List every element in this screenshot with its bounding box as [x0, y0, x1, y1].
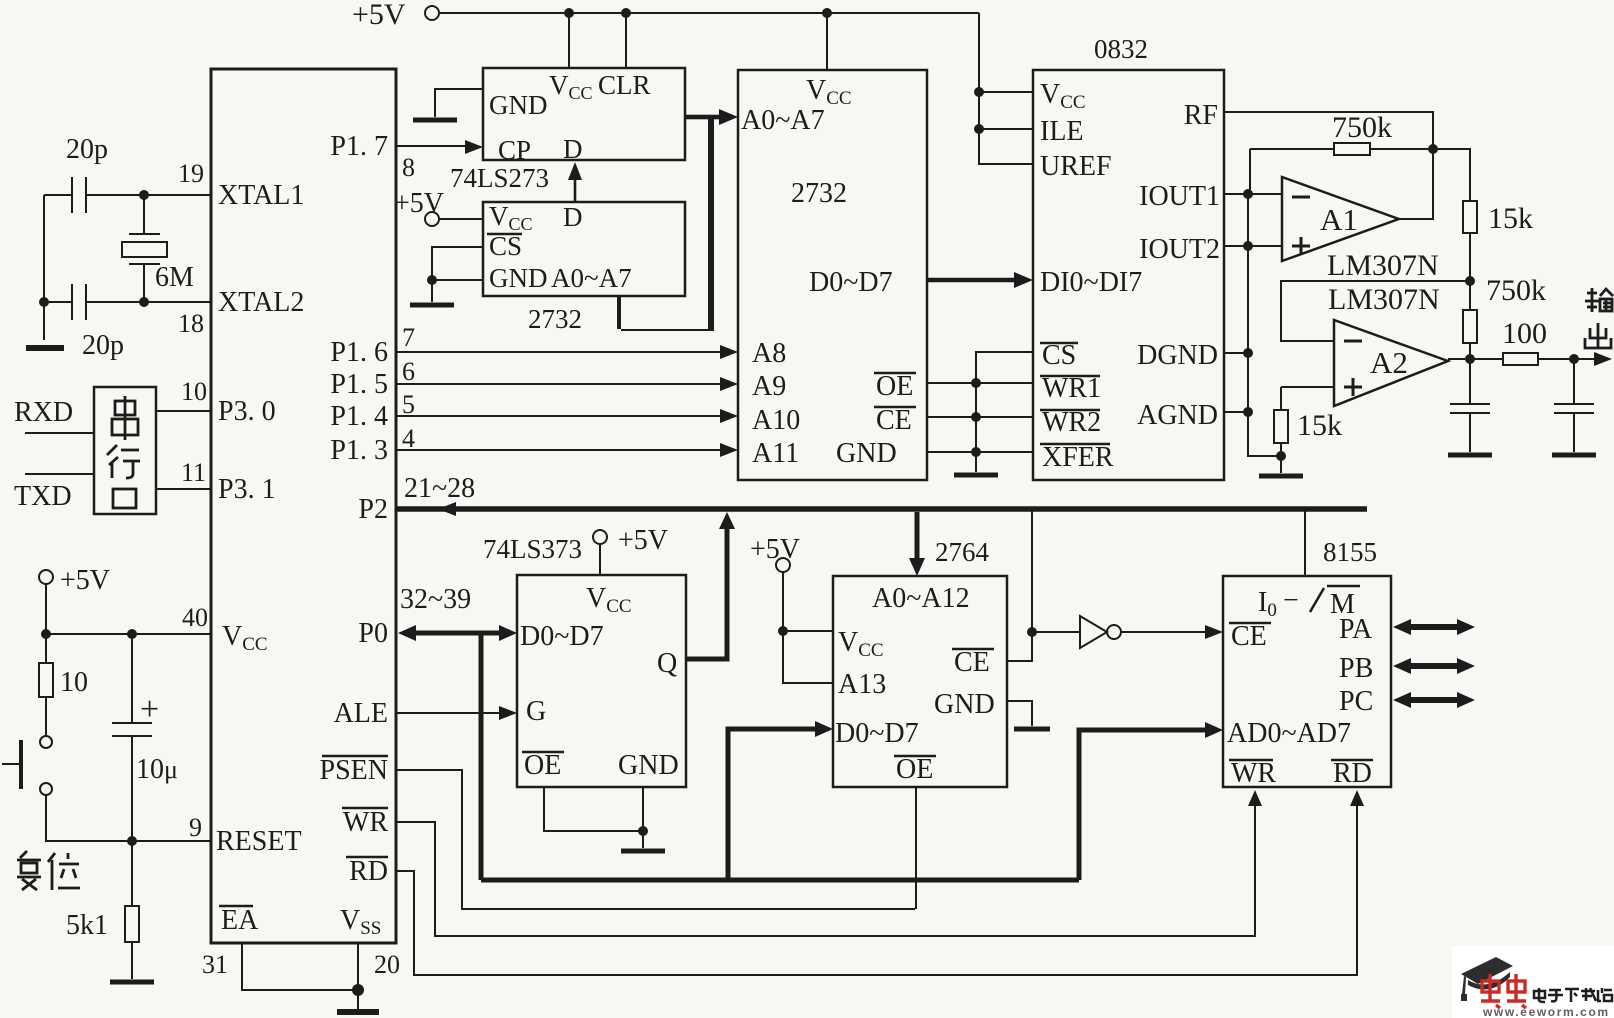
wire feedback to IOUT1 — [1249, 149, 1251, 194]
svg-text:P1. 3: P1. 3 — [330, 435, 388, 466]
DAC U5 0832 body — [1033, 70, 1224, 480]
wire +5V drop to 2732 VCC — [826, 13, 828, 70]
svg-text:LM307N: LM307N — [1327, 249, 1439, 282]
arrowhead P0 left — [398, 625, 416, 641]
wire 2764 OE drop — [915, 787, 917, 909]
wire WR to 8155 WR — [396, 796, 1255, 936]
wire XTAL2 to MCU pin 18 — [144, 301, 211, 303]
capacitor C3 10u electrolytic — [112, 634, 152, 841]
wire +5V to 2764 VCC and A13 — [783, 572, 833, 683]
bus P0 to 74LS373 D0~D7 — [404, 631, 510, 636]
junction dot caps left leg — [39, 297, 49, 307]
svg-text:5: 5 — [402, 390, 415, 419]
wire 2732 CS to ground rail — [432, 247, 483, 280]
wire +5V to 74LS373 VCC — [599, 544, 601, 575]
latch U2 74LS273 body — [483, 68, 685, 160]
A1 minus input — [1292, 196, 1310, 199]
svg-text:TXD: TXD — [14, 481, 72, 512]
wire 2732 OE to 0832 WR1 — [927, 382, 1033, 384]
wire A1 output to node — [1399, 149, 1433, 219]
svg-text:GND: GND — [618, 750, 679, 781]
wire +5V to 2732 VCC — [439, 218, 483, 220]
svg-text:20p: 20p — [82, 330, 124, 361]
bus P2 (21~28) — [396, 506, 1367, 512]
pushbutton S1 (reset) — [40, 736, 52, 748]
svg-text:RESET: RESET — [216, 826, 302, 857]
junction dot 0832 VCC — [974, 87, 984, 97]
inverter U9 — [1080, 616, 1107, 648]
svg-text:A0~A7: A0~A7 — [741, 105, 825, 136]
wire 15k to ground — [1280, 443, 1282, 473]
wire +5V to VCC pin 40 — [46, 584, 211, 634]
wire 2732 GND to 0832 XFER — [927, 451, 1033, 453]
wire IOUT2 to A1 noninverting input — [1224, 245, 1282, 247]
svg-text:A8: A8 — [752, 338, 786, 369]
svg-text:20p: 20p — [66, 134, 108, 165]
resistor R6 15k (A2 +) — [1274, 410, 1288, 443]
svg-text:P1. 6: P1. 6 — [330, 337, 388, 368]
wire 0832 VCC stub — [979, 91, 1033, 93]
svg-text:+5V: +5V — [750, 534, 800, 565]
junction dot +5V rail at 74LS273 VCC — [564, 8, 574, 18]
svg-text:WR: WR — [1231, 758, 1276, 789]
svg-text:P3. 0: P3. 0 — [218, 396, 276, 427]
junction dot DGND — [1243, 348, 1253, 358]
wire inverter output to 8155 CE — [1121, 631, 1215, 633]
svg-text:PA: PA — [1339, 614, 1373, 645]
port PB bidirectional arrow — [1401, 663, 1467, 669]
arrowhead P2 bus left — [438, 502, 456, 516]
junction dot 0832 ILE — [974, 124, 984, 134]
ground (VSS pin 20) — [337, 1009, 379, 1015]
arrowhead D up into 74LS273 — [568, 162, 582, 180]
wire 15k to junction — [1469, 233, 1471, 310]
EPROM U7 2764 body — [833, 576, 1007, 787]
wire serial box to P3.0 — [156, 410, 211, 412]
arrowhead DI0~DI7 thick — [1014, 272, 1033, 288]
svg-text:OE: OE — [876, 371, 913, 402]
+5V terminal (2732 latch) — [425, 212, 439, 226]
svg-text:2764: 2764 — [935, 537, 990, 567]
svg-text:WR: WR — [343, 807, 388, 838]
svg-text:A9: A9 — [752, 371, 786, 402]
wire PSEN to 2764 OE — [396, 770, 915, 909]
svg-text:RF: RF — [1184, 100, 1218, 131]
junction dot VSS ground — [352, 984, 364, 996]
label 出 — [1585, 323, 1611, 348]
svg-text:10μ: 10μ — [136, 754, 178, 785]
svg-text:8: 8 — [402, 153, 415, 182]
junction dot +5V rail at CLR — [621, 8, 631, 18]
svg-text:A10: A10 — [752, 405, 800, 436]
capacitor C2 20p (XTAL2) — [44, 284, 144, 320]
svg-text:IOUT1: IOUT1 — [1139, 181, 1220, 212]
svg-text:+5V: +5V — [394, 188, 444, 219]
watermark graduation cap logo — [1461, 957, 1513, 1001]
port PA bidirectional arrow — [1401, 624, 1467, 630]
junction dot GND-XFER — [971, 447, 981, 457]
wire P1.7 to 74LS273 CP — [396, 145, 476, 147]
ground (2732 latch) — [410, 303, 454, 308]
svg-text:D0~D7: D0~D7 — [835, 718, 919, 749]
A1 plus input — [1292, 237, 1310, 255]
arrowhead P2 into 2764 A0~A12 — [909, 558, 925, 576]
data bus branch to 2764 D0~D7 — [728, 729, 824, 878]
arrowhead output 输出 — [1594, 352, 1612, 366]
wire P2 bus to 8155 top — [1304, 509, 1306, 576]
+5V terminal (74LS373) — [593, 530, 607, 544]
svg-text:D0~D7: D0~D7 — [520, 621, 604, 652]
arrowhead CP — [465, 140, 483, 154]
label 输 — [1585, 288, 1613, 312]
svg-text:GND: GND — [489, 263, 548, 293]
svg-text:CE: CE — [876, 405, 912, 436]
svg-text:P2: P2 — [358, 494, 388, 525]
wire 74LS273 to 2732 A0~A7 (thick) — [685, 115, 721, 120]
svg-text:P1. 7: P1. 7 — [330, 131, 388, 162]
svg-text:UREF: UREF — [1040, 151, 1112, 182]
wire P1.6 to A8 — [396, 351, 730, 353]
junction dot IOUT2 — [1243, 241, 1253, 251]
wire XTAL1 to MCU pin 19 — [144, 194, 211, 196]
svg-text:A2: A2 — [1370, 345, 1408, 380]
wire crystal caps left leg — [43, 195, 45, 340]
svg-text:RD: RD — [349, 856, 388, 887]
wire RXD stub — [25, 432, 94, 434]
junction dot 74LS373 OE/GND — [638, 826, 648, 836]
peripheral U8 8155 body — [1223, 576, 1391, 787]
wire A2 output — [1448, 358, 1609, 360]
svg-text:PC: PC — [1339, 686, 1373, 717]
wire 74LS373 GND to ground — [642, 787, 644, 848]
wire P2 bus to 2764 CE — [1007, 509, 1032, 661]
svg-text:RD: RD — [1333, 758, 1372, 789]
wire RD to 8155 RD — [396, 796, 1357, 975]
wire TXD stub — [25, 473, 94, 475]
arrowhead into 8155 AD0~AD7 thick — [1205, 722, 1223, 738]
junction dot reset node — [127, 836, 137, 846]
svg-text:EA: EA — [221, 905, 259, 936]
svg-text:IOUT2: IOUT2 — [1139, 234, 1220, 265]
wire 0832 ILE stub — [979, 128, 1033, 130]
svg-text:18: 18 — [178, 309, 204, 338]
wire button to RESET pin 9 — [46, 795, 211, 841]
svg-text:8155: 8155 — [1323, 537, 1377, 567]
wire 2764 GND to ground — [1007, 701, 1032, 726]
junction dot CE-WR2 — [971, 412, 981, 422]
svg-text:19: 19 — [178, 159, 204, 188]
svg-text:2732: 2732 — [528, 304, 582, 334]
svg-text:D: D — [563, 202, 583, 232]
junction dot cap 10u top — [127, 629, 137, 639]
svg-text:−: − — [1283, 585, 1299, 616]
svg-text:9: 9 — [189, 813, 202, 842]
svg-text:ALE: ALE — [334, 698, 388, 729]
ground (crystal) — [26, 345, 64, 351]
svg-text:XTAL2: XTAL2 — [218, 287, 304, 318]
svg-text:WR1: WR1 — [1042, 373, 1101, 404]
data bus riser to 8155 AD0~AD7 — [1079, 730, 1214, 880]
svg-text:7: 7 — [402, 323, 415, 352]
svg-text:750k: 750k — [1486, 274, 1546, 307]
svg-text:100: 100 — [1502, 317, 1547, 350]
capacitor C5 output filter — [1554, 359, 1594, 452]
junction dot 15k/750k — [1465, 276, 1475, 286]
svg-text:15k: 15k — [1297, 409, 1342, 442]
watermark white backing — [1452, 946, 1614, 1018]
wire ALE to 74LS373 G — [396, 712, 510, 714]
wire 0832 CS — [976, 352, 1033, 472]
arrowhead A10 — [720, 409, 738, 423]
bus P0 drop to data bus — [479, 633, 484, 880]
svg-text:D0~D7: D0~D7 — [809, 267, 893, 298]
svg-text:A0~A7: A0~A7 — [551, 263, 632, 293]
wire A2 feedback — [1281, 281, 1470, 341]
junction dot XTAL1 crystal — [139, 190, 149, 200]
svg-text:4: 4 — [402, 424, 415, 453]
arrowhead Q into P2 bus — [719, 512, 735, 529]
label 位 — [48, 853, 80, 890]
svg-text:A13: A13 — [838, 669, 886, 700]
wire +5V drop to 74LS273 CLR — [625, 13, 627, 68]
op-amp A2 triangle — [1334, 320, 1448, 406]
svg-text:DI0~DI7: DI0~DI7 — [1040, 267, 1142, 298]
svg-text:2732: 2732 — [791, 178, 847, 209]
EPROM U3 2732 (address latch) body — [483, 202, 685, 296]
svg-text:40: 40 — [182, 603, 208, 632]
ground (5k1) — [110, 980, 154, 985]
MCU U1 8051 body — [211, 69, 396, 943]
ground (74LS273 GND) — [413, 118, 457, 123]
svg-text:10: 10 — [60, 667, 88, 698]
data bus bottom rail — [481, 878, 1079, 883]
junction dot AGND — [1243, 407, 1253, 417]
svg-text:OE: OE — [896, 754, 933, 785]
svg-text:15k: 15k — [1488, 202, 1533, 235]
svg-text:D: D — [563, 134, 583, 164]
wire P1.3 to A11 — [396, 449, 730, 451]
A2 plus input — [1344, 378, 1362, 396]
svg-text:P3. 1: P3. 1 — [218, 474, 276, 505]
junction dot VCC rail — [41, 629, 51, 639]
EPROM U4 2732 body — [738, 70, 927, 480]
ground (2764) — [1014, 727, 1050, 732]
svg-text:PSEN: PSEN — [320, 755, 388, 786]
svg-text:74LS373: 74LS373 — [483, 534, 582, 564]
wire 2732 CE to 0832 WR2 — [927, 416, 1033, 418]
label 复 (reset) — [17, 851, 41, 890]
arrowhead A9 — [720, 377, 738, 391]
resistor R5 750k — [1463, 310, 1477, 343]
svg-text:6M: 6M — [155, 262, 194, 293]
svg-text:+: + — [140, 691, 159, 728]
resistor R2 5k1 — [131, 841, 133, 979]
svg-text:PB: PB — [1339, 653, 1373, 684]
svg-text:GND: GND — [934, 689, 995, 720]
wire 74LS273 GND to ground — [435, 89, 483, 117]
watermark 电子下载站 — [1534, 988, 1612, 1002]
svg-text:LM307N: LM307N — [1328, 283, 1440, 316]
junction dot IOUT1 — [1243, 189, 1253, 199]
+5V terminal (2764 A13) — [776, 558, 790, 572]
bus P2 drop to 2764 A0~A12 — [915, 512, 920, 562]
junction dot XTAL2 crystal — [139, 297, 149, 307]
svg-text:AGND: AGND — [1137, 400, 1218, 431]
junction dot inverter tap — [1027, 627, 1037, 637]
wire 74LS373 OE to ground rail — [544, 787, 643, 831]
op-amp A1 triangle — [1282, 177, 1399, 261]
svg-text:A11: A11 — [752, 438, 799, 469]
svg-text:31: 31 — [202, 950, 228, 979]
wire P1.5 to A9 — [396, 383, 730, 385]
resistor R3 750k feedback — [1250, 148, 1433, 150]
wire node to 15k — [1433, 149, 1470, 201]
svg-text:WR2: WR2 — [1042, 407, 1101, 438]
label 行 — [107, 445, 140, 478]
junction dot output terminal — [1569, 354, 1579, 364]
arrowhead into 2764 D0~D7 thick — [815, 721, 833, 737]
arrowhead into 8155 CE — [1205, 625, 1223, 639]
svg-text:www.eeworm.com: www.eeworm.com — [1482, 1005, 1610, 1018]
arrowhead A0~A7 thick — [719, 109, 738, 125]
svg-text:XFER: XFER — [1042, 442, 1114, 473]
serial port box 串行口 — [94, 387, 156, 514]
arrowhead 8155 WR up — [1248, 790, 1262, 806]
capacitor C4 output filter — [1450, 359, 1490, 452]
svg-text:G: G — [526, 696, 546, 727]
svg-text:32~39: 32~39 — [400, 584, 471, 615]
ground (C5) — [1552, 453, 1596, 458]
resistor R7 100 — [1503, 353, 1538, 365]
svg-text:GND: GND — [836, 438, 897, 469]
ground (0832 control) — [954, 473, 998, 478]
svg-text:DGND: DGND — [1137, 340, 1218, 371]
+5V supply terminal (top) — [425, 6, 439, 20]
junction dot OE-WR1 — [971, 378, 981, 388]
svg-text:A1: A1 — [1320, 202, 1358, 237]
junction dot 2732 CS/GND — [427, 275, 437, 285]
junction dot +5V rail at 2732 — [822, 8, 832, 18]
watermark 虫虫 (red) — [1481, 974, 1526, 1008]
junction dot feedback node — [1428, 144, 1438, 154]
svg-text:0832: 0832 — [1094, 34, 1148, 64]
svg-text:CS: CS — [489, 231, 522, 261]
svg-text:P0: P0 — [358, 618, 388, 649]
wire +5V top rail — [439, 12, 979, 14]
arrowhead 8155 RD up — [1350, 790, 1364, 806]
crystal Y1 6M — [129, 195, 160, 302]
wire serial box to P3.1 — [156, 488, 211, 490]
wire EA to VSS underside — [242, 943, 358, 1010]
svg-text:ILE: ILE — [1040, 116, 1084, 147]
wire 750k to A2 output node — [1469, 343, 1471, 359]
svg-text:A0~A12: A0~A12 — [872, 583, 970, 614]
junction dot 15k ground — [1276, 451, 1286, 461]
svg-text:CE: CE — [1231, 621, 1267, 652]
resistor R1 10 — [45, 634, 47, 736]
ground (74LS373) — [621, 849, 665, 854]
ground (analog) — [1259, 474, 1303, 479]
wire 2732 GND — [432, 280, 483, 302]
port PC bidirectional arrow — [1401, 697, 1467, 703]
svg-text:CE: CE — [954, 647, 990, 678]
wire D 2732 to 74LS273 — [574, 176, 577, 202]
ground (C4) — [1448, 453, 1492, 458]
wire IOUT1 to A1 inverting input — [1224, 193, 1282, 195]
wire 0832 DGND — [1224, 352, 1248, 354]
capacitor C1 20p (XTAL1) — [44, 177, 144, 213]
svg-text:Q: Q — [657, 648, 677, 679]
arrowhead P0 right — [499, 625, 517, 641]
wire 2732 D0~D7 to 0832 DI0~DI7 (data) — [927, 278, 1024, 283]
label 口 — [113, 489, 136, 508]
svg-text:+5V: +5V — [352, 0, 406, 31]
svg-text:20: 20 — [374, 950, 400, 979]
svg-text:XTAL1: XTAL1 — [218, 180, 304, 211]
svg-text:21~28: 21~28 — [404, 473, 475, 504]
svg-text:+5V: +5V — [618, 525, 668, 556]
junction dot 2764 VCC +5V — [778, 626, 788, 636]
svg-text:5k1: 5k1 — [66, 910, 108, 941]
resistor R4 15k — [1463, 201, 1477, 233]
svg-text:GND: GND — [489, 90, 548, 120]
svg-text:AD0~AD7: AD0~AD7 — [1227, 718, 1351, 749]
bus 74LS373 Q up to P2 — [686, 522, 727, 659]
svg-text:RXD: RXD — [14, 397, 73, 428]
arrowhead A11 — [720, 443, 738, 457]
wire A2 noninverting input — [1281, 387, 1334, 410]
svg-text:OE: OE — [524, 750, 561, 781]
svg-text:11: 11 — [181, 458, 206, 487]
wire CE node to inverter input — [1032, 631, 1080, 633]
+5V terminal (reset circuit) — [39, 570, 53, 584]
svg-text:6: 6 — [402, 357, 415, 386]
wire P1.4 to A10 — [396, 415, 730, 417]
svg-text:P1. 4: P1. 4 — [330, 401, 388, 432]
junction dot A2 output — [1465, 354, 1475, 364]
arrowhead A8 — [720, 345, 738, 359]
arrowhead ALE into G — [499, 706, 517, 720]
label 串 (serial) — [112, 396, 138, 440]
svg-text:CS: CS — [1042, 340, 1076, 371]
wire +5V drop to 74LS273 VCC — [568, 13, 570, 68]
wire analog ground rail — [1248, 194, 1281, 456]
wire +5V drop to 0832 — [979, 13, 1033, 164]
svg-text:750k: 750k — [1332, 111, 1392, 144]
svg-text:P1. 5: P1. 5 — [330, 369, 388, 400]
svg-text:+5V: +5V — [60, 565, 110, 596]
A2 minus input — [1344, 340, 1362, 343]
svg-text:10: 10 — [181, 377, 207, 406]
svg-text:CLR: CLR — [598, 70, 651, 100]
latch U6 74LS373 body — [517, 575, 686, 787]
wire 0832 RF to feedback node — [1224, 112, 1433, 149]
svg-text:74LS273: 74LS273 — [450, 163, 549, 193]
wire 2732 latch A0~A7 loop (thick) — [617, 117, 714, 331]
wire 0832 AGND — [1224, 411, 1248, 413]
svg-text:CP: CP — [498, 135, 531, 165]
